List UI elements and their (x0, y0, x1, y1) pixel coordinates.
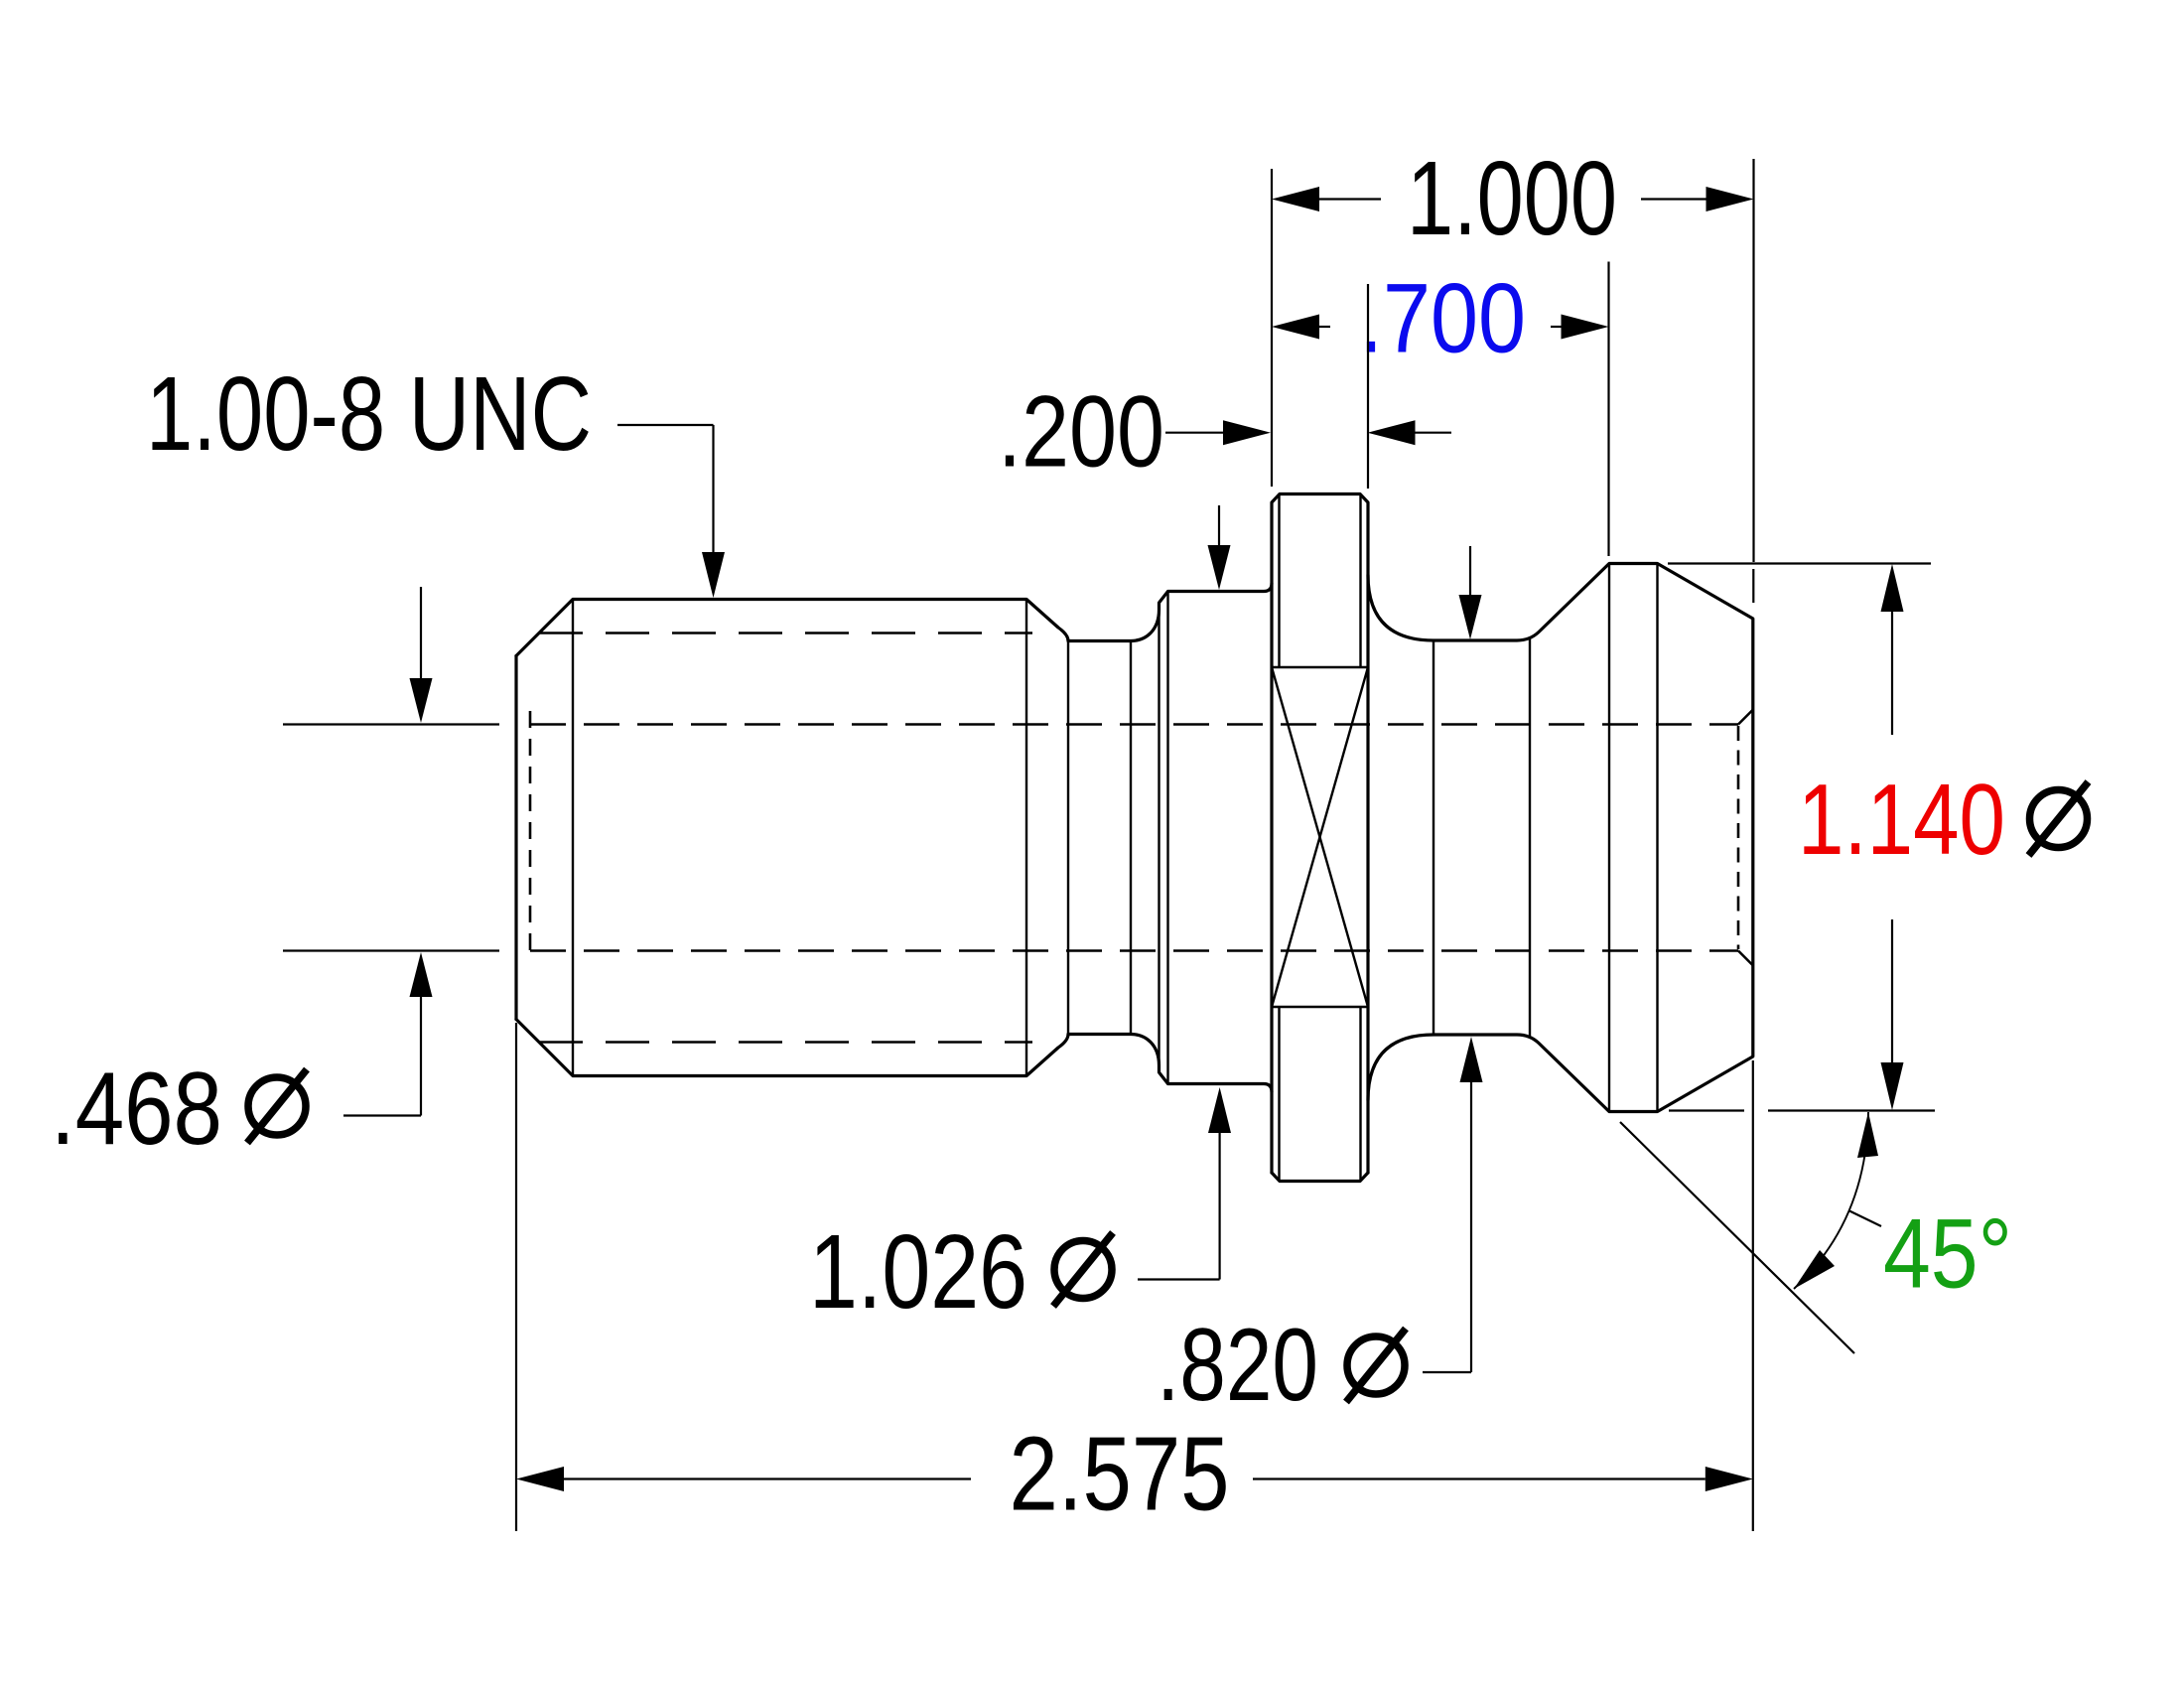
angle dimension 45 deg (1620, 1112, 1881, 1353)
arrowhead .820 lower pointing up (1460, 1037, 1483, 1082)
svg-text:.200: .200 (998, 375, 1164, 489)
svg-text:2.575: 2.575 (1010, 1416, 1230, 1533)
wire angle reference inner segment (1669, 1109, 1744, 1111)
thread callout 1.00-8 UNC (617, 425, 725, 598)
arrowhead 1.026 upper pointing down (1208, 545, 1231, 590)
wire hatch X diagonal 2 (1272, 667, 1368, 1007)
wire flange revolved-section outline (1272, 494, 1368, 1174)
wire angle leader stub (1848, 1210, 1881, 1226)
wire edge at thread left chamfer (572, 600, 574, 1076)
arrowhead .700 right (1562, 315, 1609, 340)
wire extension line stub above head chamfer (1752, 569, 1754, 603)
wire dim line 2.575 left (564, 1477, 971, 1479)
wire dim line 1.140 upper (1891, 612, 1893, 735)
wire 1.026 leader horizontal (1138, 1278, 1220, 1280)
wire edge head max dia left (1608, 564, 1610, 1112)
wire edge flange chamfer left lower (1278, 1007, 1280, 1182)
dimension .468 (283, 587, 499, 1116)
arrowhead 1.000 left (1272, 187, 1319, 211)
wire extension line hole top (283, 723, 499, 725)
wire extension line part right end (1752, 159, 1754, 562)
wire 1.026 upper arrow stem (1218, 505, 1220, 545)
dimension .200 (1165, 284, 1451, 489)
wire leader .200 right (1416, 432, 1452, 434)
svg-text:1.140: 1.140 (1798, 765, 2005, 876)
wire thread top profile (516, 584, 1272, 656)
diameter symbol for .820 (1346, 1329, 1406, 1402)
arrowhead .820 upper pointing down (1459, 595, 1482, 639)
wire thread minor dia bottom (long dash) (539, 1041, 1032, 1044)
wire extension line flange right face (1367, 284, 1369, 489)
wire leader UNC vertical (712, 425, 714, 552)
dimension 1.000 (1272, 159, 1754, 603)
wire thread bottom profile (516, 1020, 1272, 1092)
svg-text:1.000: 1.000 (1407, 140, 1617, 257)
wire dim line .700 right stub (1551, 326, 1562, 328)
wire dim line 1.000 right (1641, 198, 1706, 200)
wire coolant hole left end (hidden) (529, 711, 532, 961)
wire groove + head top profile (1368, 564, 1753, 1112)
wire .468 leader horizontal (343, 1114, 421, 1116)
wire coolant hole right end (hidden) (1737, 726, 1740, 949)
svg-text:.700: .700 (1359, 263, 1526, 373)
wire hole countersink hidden bottom (1738, 951, 1753, 966)
wire edge head chamfer tangent (1656, 564, 1658, 1112)
dimension .820 (1423, 546, 1483, 1372)
arrowhead .200 pointing right (1223, 420, 1271, 445)
wire edge collar face (1166, 592, 1168, 1084)
wire hatch X diagonal 1 (1272, 667, 1368, 1007)
arrowhead angle upper pointing up (1857, 1112, 1878, 1158)
wire edge flange chamfer left upper (1278, 494, 1280, 668)
dimension 1.140 (red) (1668, 564, 1935, 1111)
wire section boundary top (1272, 666, 1368, 668)
wire edge flange chamfer right upper (1359, 494, 1361, 668)
arrowhead 1.000 right (1706, 187, 1754, 211)
hidden lines (530, 633, 1753, 1043)
wire thread minor dia top (long dash) (539, 632, 1032, 634)
wire .468 leader vertical (420, 997, 422, 1116)
wire dim line 2.575 right (1253, 1477, 1706, 1479)
wire edge at thread end (1025, 600, 1027, 1076)
wire extension line part right end lower (1752, 1060, 1754, 1531)
wire extension line head shoulder (1607, 262, 1609, 557)
wire .468 upper arrow stem (420, 587, 422, 678)
wire extension line hole bottom (283, 949, 499, 951)
arrowhead 1.140 bottom pointing down (1881, 1062, 1904, 1110)
svg-text:1.026: 1.026 (809, 1213, 1027, 1331)
arrowhead .468 upper pointing down (410, 678, 433, 723)
wire dim line 1.000 left (1319, 198, 1381, 200)
wire hole countersink hidden top (1738, 710, 1753, 725)
wire extension line flange left face (1271, 169, 1273, 487)
wire edge flange chamfer right lower (1359, 1007, 1361, 1182)
wire dim line .700 left stub (1319, 326, 1330, 328)
wire left end face (514, 656, 517, 1020)
wire extension line part left end (515, 1023, 517, 1531)
flange section cross-hatch (1272, 667, 1368, 1007)
arrowhead .200 pointing left (1368, 420, 1416, 445)
diameter symbol for 1.026 (1053, 1233, 1113, 1307)
diameter symbol for 1.140 (2029, 782, 2089, 856)
wire edge neck left tangent (1067, 641, 1069, 1035)
wire edge groove right tangent (1529, 636, 1531, 1039)
arrowhead 1.140 top pointing up (1881, 564, 1904, 612)
wire section boundary bottom (1272, 1006, 1368, 1008)
wire .820 leader horizontal (1423, 1371, 1471, 1373)
svg-text:.468: .468 (51, 1052, 222, 1167)
wire coolant hole bottom (hidden) (530, 949, 1738, 952)
wire coolant hole top (hidden) (530, 723, 1738, 726)
arrowhead 1.026 lower pointing up (1208, 1087, 1231, 1133)
wire extension line head top (1668, 562, 1931, 564)
arrowhead 2.575 right (1706, 1467, 1753, 1491)
wire extension line head bottom / angle reference (1768, 1109, 1935, 1111)
pull stud body outline (516, 494, 1753, 1182)
diameter symbol for .468 (247, 1069, 307, 1143)
wire dim line 1.140 lower (1891, 919, 1893, 1062)
arrowhead 2.575 left (516, 1467, 564, 1491)
wire leader .200 left (1165, 432, 1223, 434)
wire 45deg cone extension line (1620, 1122, 1854, 1353)
svg-text:.820: .820 (1157, 1308, 1318, 1423)
dimension .700 (blue) (1272, 262, 1609, 557)
arrowhead angle lower pointing down-left (1794, 1250, 1835, 1289)
arrowhead UNC pointing down (702, 552, 725, 598)
arrowhead .468 lower pointing up (410, 952, 433, 997)
wire edge groove left tangent (1433, 640, 1434, 1035)
cylindrical edge lines (573, 494, 1658, 1182)
wire angle arc (1794, 1112, 1868, 1289)
wire 1.026 leader vertical (1218, 1133, 1220, 1280)
wire edge collar fillet tangent (1158, 603, 1160, 1072)
svg-text:45°: 45° (1883, 1198, 2012, 1309)
arrowhead .700 left (1272, 315, 1319, 340)
wire .820 leader vertical (1470, 1082, 1472, 1372)
wire .820 upper arrow stem (1469, 546, 1471, 595)
wire leader UNC horizontal (617, 424, 714, 426)
dimension 2.575 (516, 1023, 1753, 1531)
svg-text:1.00-8 UNC: 1.00-8 UNC (146, 355, 592, 473)
wire edge neck right tangent (1130, 641, 1132, 1035)
dimension 1.026 (1138, 505, 1231, 1280)
